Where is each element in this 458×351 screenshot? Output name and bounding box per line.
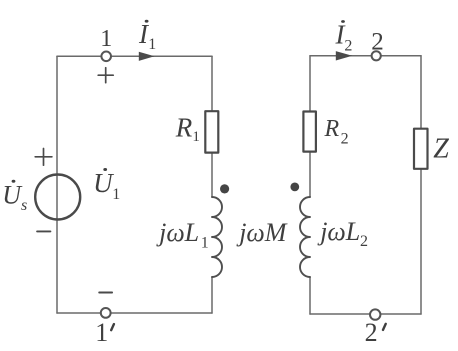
inductor L2 coil <box>300 197 310 277</box>
label: jwL2 <box>317 217 368 250</box>
label: terminal 2' <box>365 318 386 347</box>
label: current I1 <box>138 19 156 53</box>
svg-text:1: 1 <box>192 129 200 145</box>
minus sign of U1 (above node 1') <box>99 292 112 294</box>
label: jwL1 <box>156 218 209 251</box>
wire: R2/L2 branch middle segment <box>309 153 311 198</box>
svg-text:U: U <box>93 168 114 198</box>
wire: R1/L1 branch lower segment <box>211 277 213 313</box>
label: source Us <box>2 180 27 214</box>
label: voltage U1 <box>93 168 120 203</box>
svg-text:jωL: jωL <box>156 218 199 247</box>
plus sign of source Us <box>35 149 52 166</box>
svg-text:R: R <box>175 113 193 143</box>
arrow of current I1 <box>139 52 155 61</box>
wire: top-right horizontal from R2 branch to Z branch <box>310 55 421 57</box>
resistor R2 <box>303 112 316 152</box>
svg-text:jωM: jωM <box>236 218 288 247</box>
label: current I2 <box>335 20 353 55</box>
inductor L1 coil <box>212 197 222 277</box>
terminal node 2' <box>370 309 380 319</box>
svg-text:1: 1 <box>112 186 120 203</box>
svg-text:2: 2 <box>365 318 378 347</box>
resistor R1 <box>205 111 218 152</box>
impedance Z <box>414 129 428 169</box>
wire: R1/L1 branch upper segment <box>211 56 213 111</box>
svg-text:2: 2 <box>371 28 384 55</box>
wire: bottom-right horizontal to node 2' <box>310 313 421 315</box>
svg-text:Z: Z <box>433 133 449 164</box>
svg-text:2: 2 <box>344 38 352 55</box>
svg-text:1: 1 <box>100 26 112 52</box>
source U_s circle <box>35 175 80 220</box>
label: R2 <box>324 116 349 147</box>
svg-text:s: s <box>21 197 27 214</box>
svg-text:1: 1 <box>148 36 156 53</box>
terminal node 1 <box>101 52 111 62</box>
svg-text:2: 2 <box>341 131 349 148</box>
dot mark of L1 <box>220 184 229 193</box>
wire: bottom-left horizontal to node 1' <box>57 312 212 314</box>
wire: R2/L2 branch lower segment <box>309 277 311 314</box>
label: R1 <box>175 113 200 145</box>
svg-text:2: 2 <box>360 233 368 250</box>
plus sign of U1 (below node 1) <box>98 68 113 83</box>
dot mark of L2 <box>290 183 299 192</box>
wire: left vertical branch through source <box>56 56 58 313</box>
label: terminal 1' <box>95 318 114 347</box>
svg-text:jωL: jωL <box>317 217 360 246</box>
svg-text:1: 1 <box>201 235 209 252</box>
wire: R2/L2 branch upper segment <box>309 56 311 111</box>
svg-text:R: R <box>324 116 340 142</box>
arrow of current I2 <box>336 51 353 60</box>
wire: R1/L1 branch middle segment <box>211 153 213 197</box>
wire: Z branch lower segment <box>420 170 422 315</box>
terminal node 2 <box>372 51 381 60</box>
minus sign of source Us <box>37 230 50 232</box>
wire: top-left horizontal from node 1 area to R1 branch <box>57 55 212 57</box>
terminal node 1' <box>101 308 111 318</box>
wire: Z branch upper segment <box>420 56 422 129</box>
svg-text:1: 1 <box>95 318 108 347</box>
